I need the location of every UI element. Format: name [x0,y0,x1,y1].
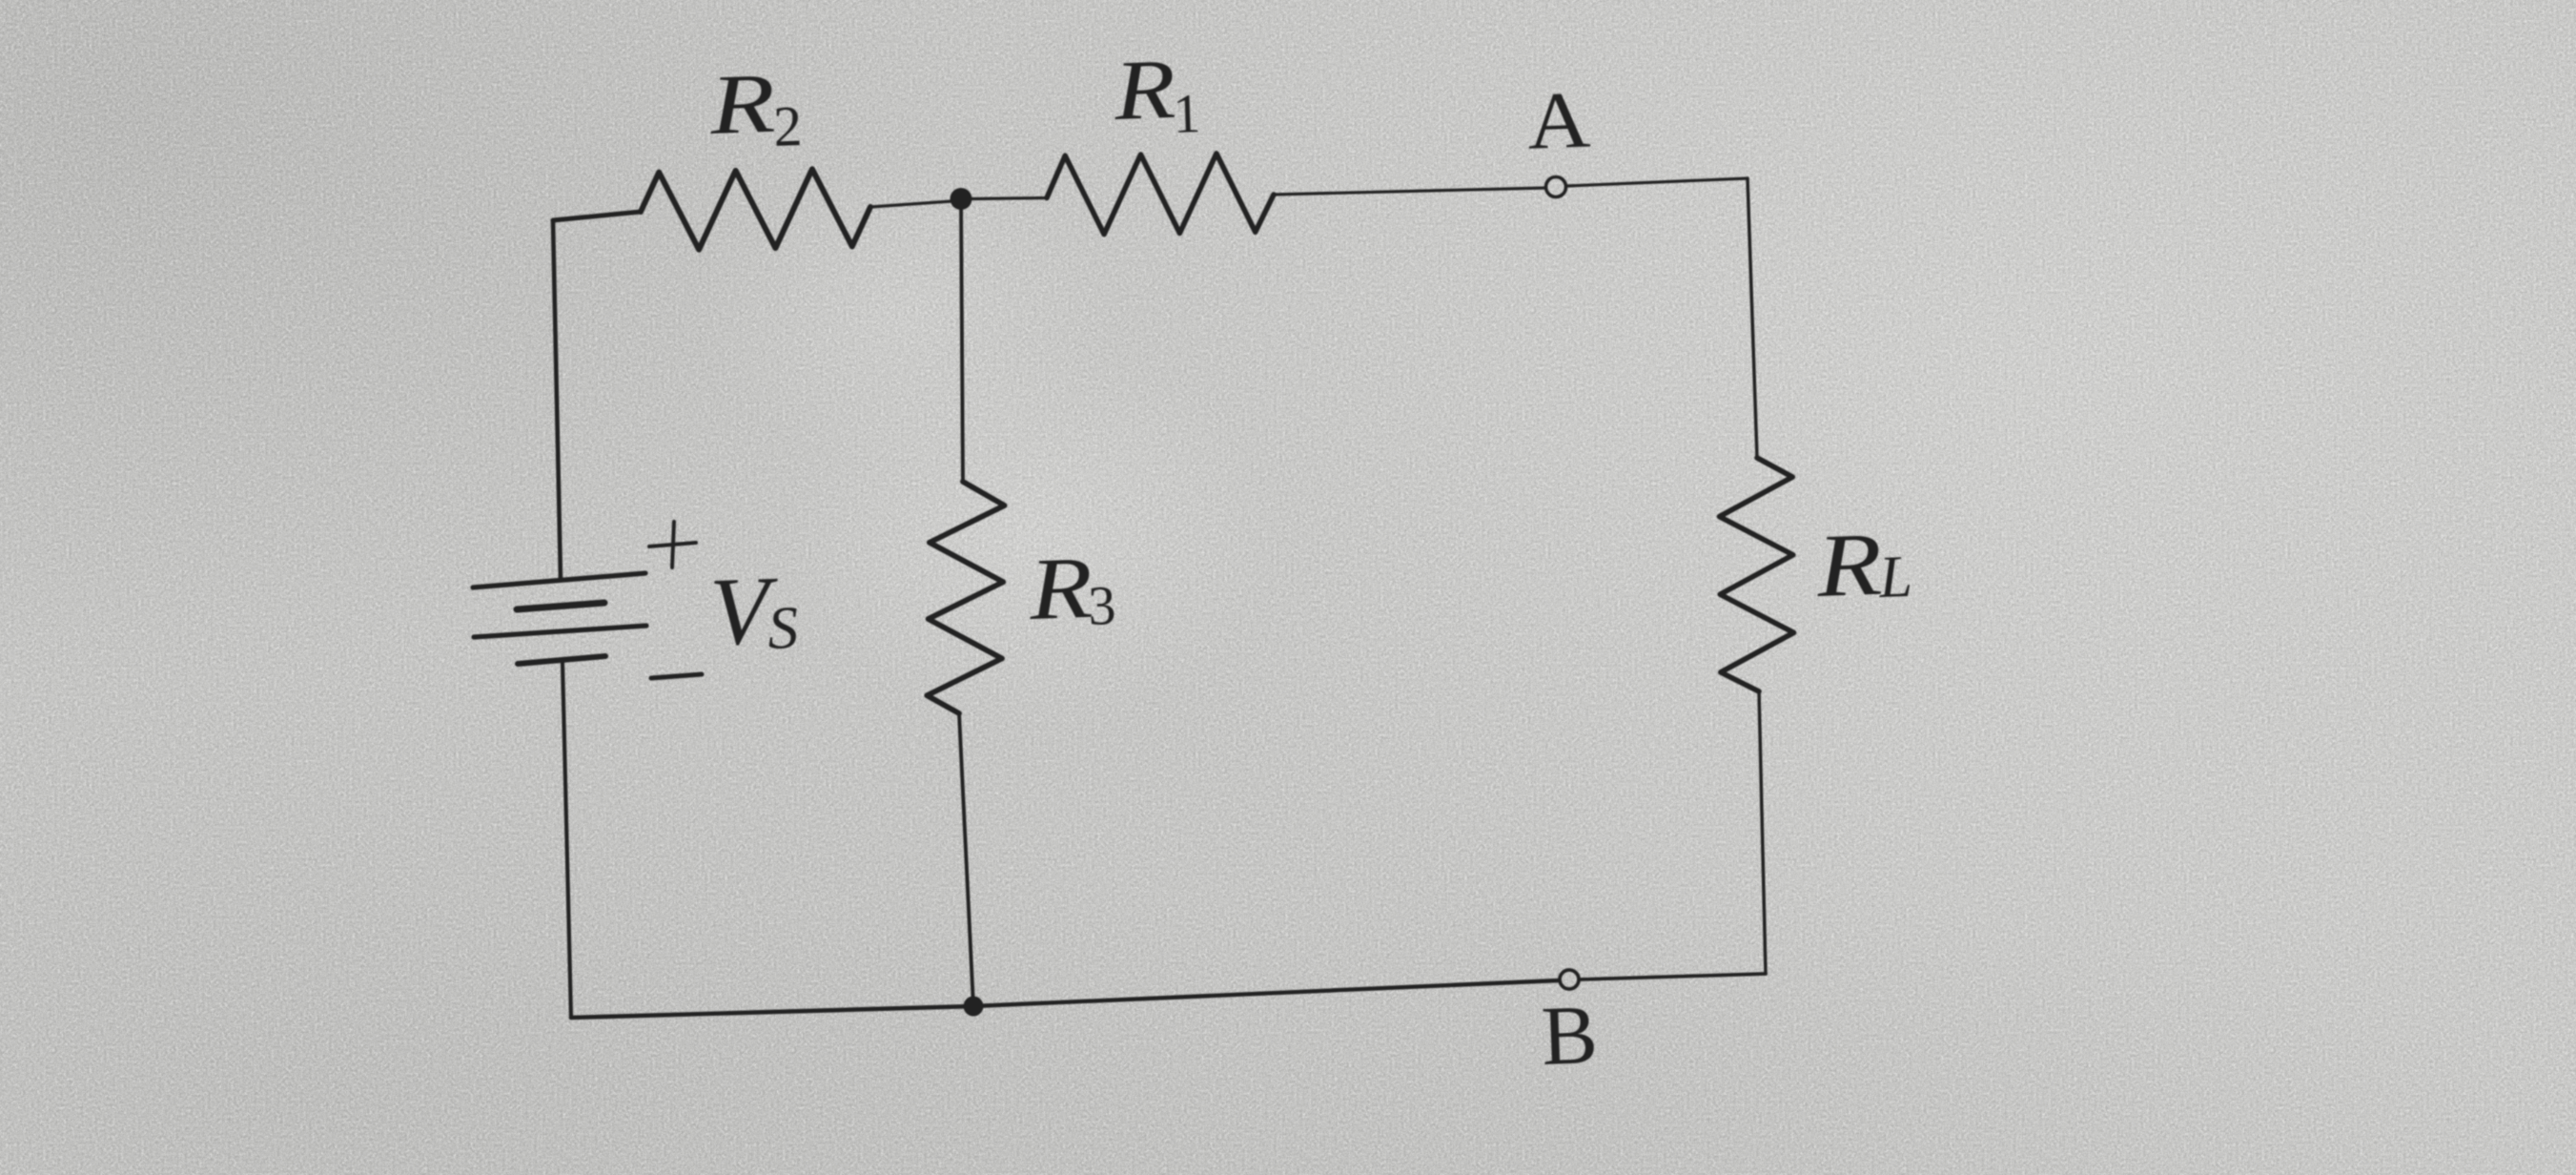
svg-text:S: S [767,593,799,662]
svg-text:A: A [1525,75,1591,167]
battery Vs plate 1 (long, +) [473,573,645,587]
svg-text:1: 1 [1172,82,1201,145]
resistor RL [1720,458,1794,691]
svg-text:R: R [707,57,777,153]
svg-text:3: 3 [1087,574,1116,637]
terminal A circle [1546,177,1566,197]
terminal B circle [1560,970,1579,989]
svg-text:L: L [1877,545,1913,610]
minus sign of Vs [651,674,702,678]
wire RL to bottom-right corner [1759,691,1766,974]
resistor R3 [927,482,1004,713]
wire right vertical down to RL [1748,178,1757,458]
wire R1 to terminal A [1274,188,1545,195]
wire node down to R3 [961,199,963,483]
wire left vertical (Vs top lead) [553,220,561,579]
svg-text:B: B [1540,989,1599,1083]
wire bottom node to bottom-left corner [571,1006,973,1018]
plus sign of Vs [649,543,696,546]
battery Vs plate 4 (short, -) [518,656,605,664]
svg-text:R: R [1112,43,1177,138]
wire node to R1 [971,198,1047,199]
node junction bottom [964,997,984,1017]
wire Vs bottom lead to bottom-left corner [562,662,571,1018]
wire terminal A to top-right corner [1566,178,1748,186]
svg-text:R: R [1027,539,1094,638]
battery Vs plate 3 (long) [474,626,646,637]
wire bottom-right corner to terminal B [1580,974,1766,979]
wire top-left corner to R2 [553,212,641,220]
resistor R1 [1047,154,1274,235]
wire R3 to bottom node [959,713,973,1006]
wire terminal B to bottom node [973,980,1559,1006]
battery Vs plate 2 (short) [517,603,604,609]
resistor R2 [641,169,870,249]
node junction top [951,188,972,210]
svg-text:2: 2 [772,94,803,158]
svg-text:R: R [1814,515,1884,616]
wire R2 to node [870,201,951,207]
